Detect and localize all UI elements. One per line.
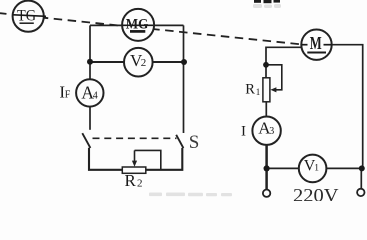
svg-text:I: I [241, 124, 246, 140]
svg-text:F: F [65, 89, 71, 100]
svg-text:S: S [189, 132, 200, 153]
svg-text:R: R [245, 82, 255, 98]
svg-text:2: 2 [141, 57, 147, 69]
svg-text:MG: MG [126, 16, 149, 32]
svg-text:4: 4 [93, 91, 98, 102]
svg-text:R: R [125, 171, 137, 190]
svg-text:3: 3 [269, 126, 274, 137]
svg-text:2: 2 [137, 177, 143, 189]
svg-text:1: 1 [314, 164, 319, 174]
svg-text:M: M [310, 33, 322, 53]
svg-text:1: 1 [256, 87, 260, 97]
svg-text:220V: 220V [293, 186, 339, 202]
